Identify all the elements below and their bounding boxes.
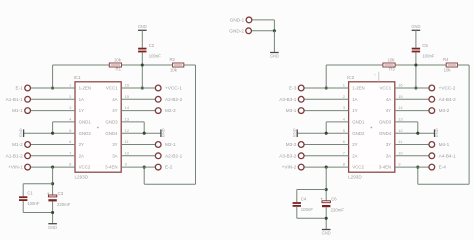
pad A2-B2-1 bbox=[155, 153, 161, 159]
svg-text:1-2EN: 1-2EN bbox=[79, 86, 91, 91]
svg-text:M4-1: M4-1 bbox=[439, 142, 450, 147]
wire net A1-B1-1 bbox=[31, 98, 75, 100]
svg-text:VCC1: VCC1 bbox=[106, 86, 118, 91]
pad A4-B4-1 bbox=[429, 153, 435, 159]
svg-text:GND-1: GND-1 bbox=[230, 18, 245, 23]
svg-text:16: 16 bbox=[398, 83, 403, 88]
svg-text:M4-2: M4-2 bbox=[439, 108, 450, 113]
wire net A2-B2-1 bbox=[121, 155, 155, 157]
svg-text:10k: 10k bbox=[114, 57, 122, 62]
svg-text:10k: 10k bbox=[170, 67, 178, 72]
svg-text:A1-B1-1: A1-B1-1 bbox=[6, 97, 24, 102]
svg-text:100nF: 100nF bbox=[301, 207, 314, 212]
svg-text:13: 13 bbox=[125, 117, 130, 122]
ground left of IC bbox=[291, 128, 297, 137]
svg-text:˄: ˄ bbox=[374, 73, 376, 77]
pad M1-1 bbox=[25, 108, 31, 114]
junction cap branch bbox=[51, 182, 54, 185]
svg-text:R3: R3 bbox=[389, 66, 395, 71]
wire net M4-2 bbox=[395, 110, 429, 112]
pad E-2 bbox=[155, 164, 161, 170]
svg-text:GND: GND bbox=[48, 225, 57, 230]
wire gnd to C5 bbox=[415, 30, 417, 47]
capacitor C3 220mF polarized bbox=[47, 191, 71, 207]
svg-text:GND: GND bbox=[411, 24, 420, 29]
svg-text:M3-2: M3-2 bbox=[286, 142, 297, 147]
wire: top VCC rail IC1 bbox=[53, 64, 110, 66]
junction VIN net bbox=[51, 166, 54, 169]
junction bottom rail bbox=[325, 217, 328, 220]
pad A4-B4-2 bbox=[429, 96, 435, 102]
junction rail left corner bbox=[325, 86, 328, 89]
svg-text:C5: C5 bbox=[422, 43, 428, 48]
wire: top VCC rail IC2 bbox=[326, 64, 383, 66]
svg-text:GND3: GND3 bbox=[379, 120, 392, 125]
pad +VCC-1 bbox=[155, 85, 161, 91]
svg-text:C4: C4 bbox=[301, 196, 307, 201]
wire C1 to bottom rail bbox=[22, 201, 24, 213]
svg-text:E-2: E-2 bbox=[165, 165, 173, 170]
wire net +VCC-2 bbox=[395, 87, 429, 89]
svg-text:10k: 10k bbox=[388, 57, 396, 62]
IC2 origin tick bbox=[378, 72, 380, 82]
wire pin13 GND3 bbox=[121, 121, 144, 123]
svg-text:3A: 3A bbox=[112, 153, 117, 158]
pad +VIN-2 bbox=[298, 164, 304, 170]
svg-text:10: 10 bbox=[398, 150, 403, 155]
svg-text:100nF: 100nF bbox=[27, 201, 40, 206]
svg-text:VCC2: VCC2 bbox=[79, 165, 91, 170]
svg-text:VCC2: VCC2 bbox=[352, 165, 364, 170]
capacitor C4 100nF bbox=[293, 196, 314, 212]
wire net A2-B2-2 bbox=[121, 98, 155, 100]
capacitor C6 220mF polarized bbox=[321, 197, 345, 213]
wire down to ground bbox=[273, 31, 275, 52]
svg-text:GND4: GND4 bbox=[105, 131, 118, 136]
svg-text:C6: C6 bbox=[331, 197, 337, 202]
pad A3-B3-2 bbox=[298, 153, 304, 159]
pad M3-2 bbox=[298, 142, 304, 148]
svg-text:15: 15 bbox=[125, 94, 130, 99]
junction VCC pin16 bbox=[414, 86, 417, 89]
svg-text:1Y: 1Y bbox=[79, 108, 84, 113]
wire C6 to bottom rail bbox=[325, 207, 327, 229]
wire branch to C1 bbox=[23, 183, 52, 185]
svg-text:M3-1: M3-1 bbox=[286, 108, 297, 113]
junction rail left corner bbox=[51, 86, 54, 89]
svg-text:GND: GND bbox=[322, 231, 331, 236]
capacitor C2 100nF bbox=[138, 43, 161, 59]
wire net A1-B1-2 bbox=[31, 155, 75, 157]
wire net +VIN-2 bbox=[305, 166, 349, 168]
junction VCC pin16 bbox=[141, 86, 144, 89]
svg-text:4Y: 4Y bbox=[112, 108, 117, 113]
svg-text:C3: C3 bbox=[58, 191, 64, 196]
junction cap branch bbox=[325, 188, 328, 191]
wire net A3-B3-2 bbox=[305, 155, 349, 157]
svg-text:VCC1: VCC1 bbox=[379, 86, 391, 91]
wire VIN down to caps bbox=[325, 167, 327, 201]
IC IC1 L293D body bbox=[75, 82, 121, 172]
svg-text:C1: C1 bbox=[27, 191, 33, 196]
svg-text:+VIN-2: +VIN-2 bbox=[282, 165, 297, 170]
resistor R1 10k bbox=[109, 57, 122, 71]
junction gnd right bbox=[143, 132, 146, 135]
junction enable-2 net bbox=[143, 166, 146, 169]
wire net M1-2 bbox=[31, 144, 75, 146]
svg-text:A2-B2-1: A2-B2-1 bbox=[165, 153, 183, 158]
junction rail/cap bbox=[141, 63, 144, 66]
svg-text:A3-B3-2: A3-B3-2 bbox=[279, 153, 297, 158]
svg-text:GND: GND bbox=[291, 128, 296, 137]
wire C4 to bottom rail bbox=[296, 207, 298, 219]
svg-text:2A: 2A bbox=[352, 153, 357, 158]
junction enable-2 net bbox=[416, 166, 419, 169]
resistor R4 10k bbox=[443, 57, 457, 73]
wire net +VIN-1 bbox=[31, 166, 75, 168]
svg-text:GND2: GND2 bbox=[79, 131, 92, 136]
svg-text:10: 10 bbox=[125, 150, 130, 155]
ground left of IC bbox=[18, 128, 24, 137]
junction VIN net bbox=[325, 166, 328, 169]
svg-text:E-3: E-3 bbox=[289, 86, 297, 91]
svg-text:2Y: 2Y bbox=[352, 142, 357, 147]
svg-text:3Y: 3Y bbox=[112, 142, 117, 147]
svg-text:GND: GND bbox=[161, 128, 166, 137]
pad E-1 bbox=[25, 85, 31, 91]
wire net E-3 bbox=[305, 87, 349, 89]
svg-text:GND: GND bbox=[434, 128, 439, 137]
ground middle bbox=[270, 53, 279, 59]
svg-text:IC2: IC2 bbox=[347, 75, 355, 80]
wire net E-4 bbox=[395, 166, 429, 168]
wire pin13 GND3 bbox=[395, 121, 418, 123]
svg-text:GND3: GND3 bbox=[105, 120, 118, 125]
svg-text:A1-B1-2: A1-B1-2 bbox=[6, 153, 24, 158]
wire C5 down to VCC net bbox=[415, 52, 417, 88]
svg-text:L293D: L293D bbox=[348, 174, 362, 179]
junction gnd right bbox=[416, 132, 419, 135]
svg-text:C2: C2 bbox=[149, 43, 155, 48]
wire C2 down to VCC net bbox=[141, 52, 143, 88]
junction bottom rail bbox=[51, 211, 54, 214]
svg-text:1-2EN: 1-2EN bbox=[352, 86, 364, 91]
pad A3-B3-1 bbox=[298, 96, 304, 102]
svg-text:M2-1: M2-1 bbox=[165, 142, 176, 147]
svg-text:M1-1: M1-1 bbox=[12, 108, 23, 113]
wire pin12 GND4 bbox=[395, 132, 435, 134]
svg-text:+VIN-1: +VIN-1 bbox=[8, 165, 23, 170]
wire VIN down to caps bbox=[52, 167, 54, 195]
ground top of C2 bbox=[138, 24, 147, 30]
svg-text:100nF: 100nF bbox=[149, 54, 162, 59]
ground right of IC bbox=[434, 128, 439, 137]
wire net E-1 bbox=[31, 87, 75, 89]
svg-text:R4: R4 bbox=[443, 57, 449, 62]
wire pin5 GND2 bbox=[24, 132, 75, 134]
svg-text:E-4: E-4 bbox=[439, 165, 447, 170]
svg-text:15: 15 bbox=[398, 94, 403, 99]
wire C3 to bottom rail bbox=[52, 201, 54, 223]
svg-text:GND4: GND4 bbox=[379, 131, 392, 136]
pad +VIN-1 bbox=[25, 164, 31, 170]
svg-text:GND1: GND1 bbox=[79, 120, 92, 125]
svg-text:E-1: E-1 bbox=[16, 86, 24, 91]
pad M3-1 bbox=[298, 108, 304, 114]
wire net M2-2 bbox=[121, 110, 155, 112]
capacitor C5 100nF bbox=[412, 43, 435, 59]
resistor R3 10k bbox=[383, 57, 396, 71]
resistor R2 10k bbox=[169, 57, 183, 73]
wire branch to C4 bbox=[297, 189, 326, 191]
wire: rail right vertical to enable-2 net bbox=[195, 65, 197, 184]
wire net M3-2 bbox=[305, 144, 349, 146]
svg-text:GND1: GND1 bbox=[352, 120, 365, 125]
svg-text:2Y: 2Y bbox=[79, 142, 84, 147]
svg-text:GND2: GND2 bbox=[352, 131, 365, 136]
svg-text:220mF: 220mF bbox=[331, 208, 345, 213]
svg-text:1Y: 1Y bbox=[352, 108, 357, 113]
wire pin5 GND2 bbox=[297, 132, 348, 134]
svg-text:2A: 2A bbox=[79, 153, 84, 158]
svg-text:L293D: L293D bbox=[75, 174, 89, 179]
svg-text:3A: 3A bbox=[386, 153, 391, 158]
pad A1-B1-1 bbox=[25, 96, 31, 102]
wire corner down bbox=[273, 20, 275, 31]
node GND-1 pad bbox=[246, 17, 252, 23]
capacitor C1 100nF bbox=[19, 191, 40, 207]
svg-text:A4-B4-2: A4-B4-2 bbox=[439, 97, 457, 102]
svg-text:4A: 4A bbox=[112, 97, 117, 102]
pad M4-2 bbox=[429, 108, 435, 114]
svg-text:12: 12 bbox=[398, 128, 403, 133]
wire: rail down-left to pin1 net bbox=[325, 65, 327, 88]
pad A2-B2-2 bbox=[155, 96, 161, 102]
wire net M2-1 bbox=[121, 144, 155, 146]
svg-text:IC1: IC1 bbox=[74, 75, 82, 80]
ground right of IC bbox=[161, 128, 166, 137]
svg-text:10k: 10k bbox=[444, 67, 452, 72]
svg-text:100nF: 100nF bbox=[422, 54, 435, 59]
junction gnd left bbox=[325, 132, 328, 135]
wire net +VCC-1 bbox=[121, 87, 155, 89]
wire gnd to C2 bbox=[141, 30, 143, 47]
junction gnd left bbox=[51, 132, 54, 135]
wire net A4-B4-1 bbox=[395, 155, 429, 157]
wire net A4-B4-2 bbox=[395, 98, 429, 100]
svg-text:16: 16 bbox=[125, 83, 130, 88]
wire pin4 GND1 bbox=[326, 121, 348, 123]
IC origin mark bbox=[97, 127, 99, 129]
pad M2-1 bbox=[155, 142, 161, 148]
ground bottom bbox=[322, 230, 331, 236]
svg-text:GND: GND bbox=[138, 24, 147, 29]
svg-text:13: 13 bbox=[398, 117, 403, 122]
svg-text:A3-B3-1: A3-B3-1 bbox=[279, 97, 297, 102]
IC IC2 L293D body bbox=[349, 82, 395, 172]
svg-text:3Y: 3Y bbox=[386, 142, 391, 147]
svg-text:4Y: 4Y bbox=[386, 108, 391, 113]
svg-text:GND-2: GND-2 bbox=[229, 29, 244, 34]
ground top of C5 bbox=[411, 24, 420, 30]
svg-text:GND: GND bbox=[18, 128, 23, 137]
svg-text:3-4EN: 3-4EN bbox=[105, 165, 117, 170]
wire net M1-1 bbox=[31, 110, 75, 112]
svg-text:R1: R1 bbox=[116, 66, 122, 71]
pad M4-1 bbox=[429, 142, 435, 148]
pad M2-2 bbox=[155, 108, 161, 114]
wire net M3-1 bbox=[305, 110, 349, 112]
wire pin4 GND1 bbox=[53, 121, 75, 123]
svg-text:M2-2: M2-2 bbox=[165, 108, 176, 113]
junction gnd net bbox=[273, 29, 276, 32]
svg-text:M1-2: M1-2 bbox=[12, 142, 23, 147]
svg-text:12: 12 bbox=[125, 128, 130, 133]
svg-text:220mF: 220mF bbox=[57, 202, 71, 207]
pad E-4 bbox=[429, 164, 435, 170]
wire pin12 GND4 bbox=[121, 132, 161, 134]
svg-text:14: 14 bbox=[125, 105, 130, 110]
wire net A3-B3-1 bbox=[305, 98, 349, 100]
pad M1-2 bbox=[25, 142, 31, 148]
svg-text:A4-B4-1: A4-B4-1 bbox=[439, 153, 457, 158]
wire net E-2 bbox=[121, 166, 155, 168]
svg-text:3-4EN: 3-4EN bbox=[379, 165, 391, 170]
ground bottom bbox=[48, 224, 57, 230]
wire net M4-1 bbox=[395, 144, 429, 146]
wire: rail right vertical to enable-2 net bbox=[468, 65, 470, 184]
svg-text:1A: 1A bbox=[79, 97, 84, 102]
wire GND-1 bbox=[252, 19, 274, 21]
wire GND-2 bbox=[252, 30, 275, 32]
svg-text:1A: 1A bbox=[352, 97, 357, 102]
IC origin mark bbox=[371, 127, 373, 129]
svg-text:A2-B2-2: A2-B2-2 bbox=[165, 97, 183, 102]
svg-text:+VCC-2: +VCC-2 bbox=[439, 86, 456, 91]
junction rail/cap bbox=[414, 63, 417, 66]
node GND-2 pad bbox=[246, 28, 252, 34]
svg-text:GND: GND bbox=[270, 54, 279, 59]
svg-text:4A: 4A bbox=[386, 97, 391, 102]
wire: rail down-left to pin1 net bbox=[52, 65, 54, 88]
svg-text:14: 14 bbox=[398, 105, 403, 110]
svg-text:R2: R2 bbox=[169, 57, 175, 62]
pad E-3 bbox=[298, 85, 304, 91]
svg-text:+VCC-1: +VCC-1 bbox=[165, 86, 182, 91]
pad A1-B1-2 bbox=[25, 153, 31, 159]
pad +VCC-2 bbox=[429, 85, 435, 91]
